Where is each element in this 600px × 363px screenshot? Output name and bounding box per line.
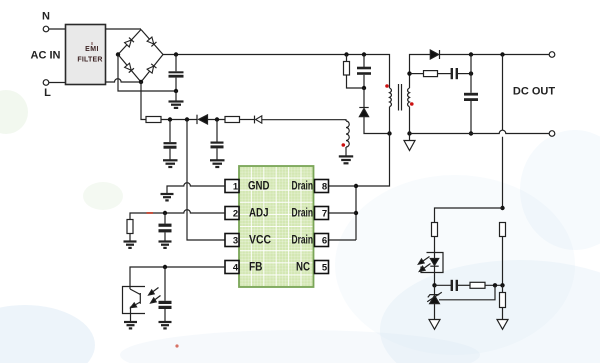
ground TL431 anode (triangle) — [429, 320, 440, 330]
wire bridge bottom vertex down to startup row — [141, 82, 146, 120]
wire bridge edge top-left — [118, 30, 141, 55]
wire bridge minus: left vertex down and right to bulk cap bottom — [118, 55, 176, 92]
capacitor bulk C1 — [169, 55, 184, 92]
wire D5 to R2 — [208, 119, 226, 121]
wire feedback vertical — [502, 55, 504, 209]
capacitor C2 — [164, 120, 177, 161]
junction divider mid — [500, 283, 504, 287]
node N terminal — [43, 26, 49, 32]
wire pin 7 to drain bus — [329, 212, 357, 214]
wire bridge edge bottom-right — [141, 55, 163, 83]
wire R1 to node V1 — [161, 119, 197, 121]
ground optocoupler emitter — [124, 314, 137, 329]
wire R2 to diode D6 — [240, 119, 255, 121]
node DC OUT plus terminal — [549, 52, 555, 58]
junction drain bus pin 7 — [354, 211, 358, 215]
junction secondary bottom — [407, 131, 411, 135]
light arrows into phototransistor — [149, 288, 161, 304]
pin 1 box — [225, 180, 239, 193]
junction clamp RC bottom — [362, 86, 366, 90]
pin 7 box — [315, 207, 329, 220]
wire pin 2 to ADJ network (hop over VCC line) — [130, 210, 225, 220]
svg-text:8: 8 — [322, 182, 327, 193]
bridge rectifier BR1 — [116, 30, 163, 85]
wire VCC vertical to pin 3 — [187, 120, 225, 241]
svg-text:2: 2 — [233, 209, 238, 220]
junction C8 bottom on return rail — [469, 131, 473, 135]
svg-text:1: 1 — [233, 182, 239, 193]
capacitor C3 — [211, 120, 224, 161]
junction feedback divider top — [500, 206, 504, 210]
resistor R3 (clamp, vertical) — [344, 55, 365, 89]
svg-text:EMI: EMI — [85, 46, 99, 53]
bridge diode top-right — [147, 37, 157, 47]
pin 3 box — [225, 234, 239, 247]
wire pin 6 to drain bus — [329, 239, 357, 241]
junction ADJ node — [163, 211, 167, 215]
transformer T1 secondary winding — [408, 88, 410, 107]
wire primary bottom to drain bus — [356, 107, 390, 186]
polarity dot primary — [385, 84, 389, 88]
svg-text:FB: FB — [249, 260, 263, 274]
capacitor C5 (ADJ) — [159, 213, 172, 242]
pin 5 box — [315, 261, 329, 274]
capacitor C4 (clamp) — [357, 55, 371, 89]
resistor R6 (opto LED series) — [432, 223, 438, 253]
svg-text:3: 3 — [233, 236, 238, 247]
polarity dot aux winding — [342, 143, 346, 147]
junction node VCC tap — [185, 117, 189, 121]
node L terminal — [43, 80, 49, 86]
ground C3 — [210, 160, 225, 167]
junction compensation to ref node — [493, 283, 497, 287]
optocoupler U3 phototransistor — [123, 287, 146, 314]
junction plus rail at bulk cap — [174, 52, 178, 56]
transformer T1 primary winding — [390, 88, 392, 107]
wire D6 to auxiliary winding — [262, 120, 346, 121]
junction FB node — [163, 265, 167, 269]
junction plus rail at clamp resistor — [344, 52, 348, 56]
junction drain bus pin 8 — [354, 184, 358, 188]
diode D5 (VCC, pointing left) — [197, 115, 208, 124]
capacitor C6 (FB) — [159, 267, 172, 322]
junction snubber to output rail — [469, 71, 473, 75]
svg-text:L: L — [44, 87, 51, 99]
junction bridge left vertex — [116, 52, 120, 56]
wire secondary top to output diode — [410, 55, 431, 89]
diode D7 (clamp, pointing up) — [359, 88, 389, 134]
svg-text:5: 5 — [322, 263, 328, 274]
pin 6 box — [315, 234, 329, 247]
wire drain bus vertical — [355, 186, 357, 240]
EMI filter block U2 — [66, 25, 106, 85]
ground C2 — [163, 160, 178, 167]
wire R5 to C7 — [438, 73, 452, 75]
node DC OUT minus terminal — [549, 131, 555, 137]
junction TL431 cathode / compensation node — [432, 283, 436, 287]
inductor auxiliary winding T1-aux — [346, 121, 349, 147]
capacitor C7 (output snubber) — [452, 68, 471, 79]
wire TL431 ref to divider mid — [439, 285, 495, 300]
svg-text:VCC: VCC — [249, 233, 271, 247]
bridge diode bottom-right — [147, 64, 156, 73]
wire LED to TL431 cathode node — [434, 273, 436, 286]
pin 8 box — [315, 180, 329, 193]
shunt regulator U4 TL431 — [427, 285, 442, 319]
red artifact dot — [175, 344, 178, 347]
polarity dot secondary — [410, 102, 414, 106]
bridge diode bottom-left — [124, 63, 134, 73]
optocoupler U3 LED — [421, 253, 443, 273]
wire L terminal to EMI filter — [49, 82, 66, 84]
ground C5 — [159, 242, 172, 248]
transformer T1 core — [399, 84, 402, 111]
svg-text:4: 4 — [233, 263, 239, 274]
ground aux winding — [339, 147, 353, 163]
svg-text:DC OUT: DC OUT — [513, 86, 555, 98]
junction output rail at C8 — [469, 52, 473, 56]
wire pin 1 to ground (hop over VCC line) — [167, 183, 225, 194]
ground pin 1 — [161, 194, 174, 200]
resistor R2 (horizontal) — [225, 117, 240, 123]
wire pin 4 to FB network — [130, 267, 225, 287]
resistor R7 (compensation) — [470, 282, 503, 288]
svg-text:NC: NC — [296, 260, 310, 274]
wire pin 8 to drain bus — [329, 185, 357, 187]
ground C6 — [159, 322, 172, 328]
resistor R4 (ADJ, vertical) — [127, 220, 133, 242]
junction secondary snubber tap — [407, 71, 411, 75]
pin 4 box — [225, 261, 239, 274]
svg-text:Drain: Drain — [292, 206, 314, 220]
svg-text:AC IN: AC IN — [31, 50, 61, 62]
wire N terminal to EMI filter — [49, 28, 66, 30]
light arrows out of LED — [418, 257, 430, 272]
ground primary bus (below bulk cap) — [169, 91, 184, 108]
pin 2 box — [225, 207, 239, 220]
junction feedback tap on plus rail — [500, 52, 504, 56]
junction plus rail at clamp capacitor — [362, 52, 366, 56]
junction bridge bottom vertex — [139, 80, 143, 84]
svg-text:Drain: Drain — [292, 233, 314, 247]
ground R4 — [124, 242, 137, 248]
capacitor C8 (output) — [464, 55, 478, 134]
wire feedback to opto LED branch — [435, 208, 503, 223]
wire EMI filter to bridge bottom vertex (L line, hop over minus drop) — [106, 79, 142, 82]
background tint blobs — [0, 90, 600, 363]
svg-text:GND: GND — [248, 179, 270, 193]
resistor R9 (divider lower) — [500, 285, 506, 319]
svg-text:7: 7 — [322, 209, 327, 220]
wire bridge edge top-right — [141, 30, 163, 55]
svg-text:Drain: Drain — [292, 179, 314, 193]
wire secondary bottom / DC return rail (hop over feedback line) — [410, 107, 550, 134]
svg-text:6: 6 — [322, 236, 327, 247]
svg-text:N: N — [42, 11, 50, 23]
junction primary bottom / drain node — [387, 131, 391, 135]
svg-text:ADJ: ADJ — [249, 206, 269, 220]
IC U1 controller — [239, 166, 314, 287]
diode D6 (small, pointing left) — [255, 116, 262, 124]
capacitor C9 (compensation) — [435, 280, 471, 291]
svg-text:FILTER: FILTER — [77, 57, 102, 64]
diode D8 (output, pointing right) — [430, 50, 549, 59]
junction node V2 (cap C3 tap) — [215, 117, 219, 121]
wire bridge edge bottom-left — [118, 55, 141, 83]
junction node V1 (cap C2 tap) — [168, 117, 172, 121]
resistor R8 (divider upper) — [500, 223, 506, 286]
bridge diode top-left — [124, 38, 134, 48]
wire snubber row — [410, 73, 424, 75]
ground divider (triangle) — [497, 320, 508, 330]
red mark on ADJ wire — [147, 212, 154, 214]
wire plus rail: bridge right vertex to transformer primary top — [163, 55, 390, 89]
resistor R1 (startup, horizontal) — [146, 117, 161, 123]
junction bulk cap bottom / minus node — [174, 89, 178, 93]
ground secondary (triangle) — [404, 134, 415, 151]
wire EMI filter to bridge top vertex (N line) — [106, 28, 142, 30]
resistor R5 (output snubber) — [424, 71, 438, 77]
